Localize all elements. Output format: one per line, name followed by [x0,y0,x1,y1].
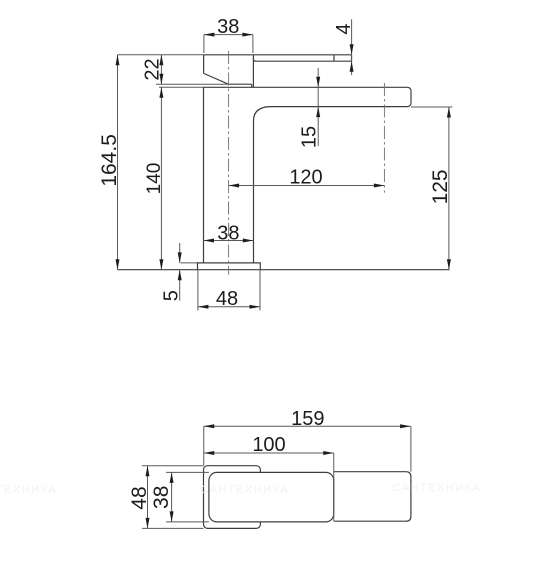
mounting surface baseline [118,269,450,271]
extension line from flange top, left (refs 5 dim) [181,262,198,264]
dimension 48 (flange width) [198,270,260,311]
svg-text:125: 125 [429,169,452,204]
handle right edge [252,55,254,88]
dimension 38 (handle width, top) [204,16,253,53]
svg-text:48: 48 [128,486,151,509]
lever tip end [351,55,353,61]
dimension 38 (plan bar width) [150,472,209,522]
svg-text:164.5: 164.5 [98,134,121,187]
svg-text:4: 4 [333,23,355,34]
svg-text:22: 22 [141,58,163,80]
svg-text:5: 5 [161,290,183,301]
dimension 159 (overall length, plan) [204,408,411,430]
body right edge [253,121,255,263]
body top and spout top edge [204,87,412,91]
spout right end edge [410,91,412,102]
extension line from body top, left (refs 140 dim) [159,86,204,88]
spout bottom edge with end corner and body fillet [254,103,412,121]
dimension 22 (handle height) [141,55,163,84]
svg-text:100: 100 [252,434,285,456]
svg-text:38: 38 [150,486,173,509]
dimension 38 (body width, bottom) [204,223,254,245]
dimension 120 (spout reach) [229,167,385,189]
dimension 48 (plan base width) [128,466,204,529]
handle bottom step [251,84,253,87]
handle top / lever top edge [204,54,352,56]
body vertical centerline [228,51,230,275]
base flange outline [198,263,261,270]
svg-text:САНТЕХНИКА: САНТЕХНИКА [201,484,290,496]
lever underside with corner [253,59,351,62]
svg-text:120: 120 [289,167,322,189]
dimension 125 (spout height above counter) [411,107,452,270]
dimension 15 (spout section height) [298,68,320,148]
wire: extension line from lever top, left (refs 164.5 and 22 dims) [118,54,204,56]
aerator vertical centerline [383,83,385,193]
svg-text:15: 15 [298,126,320,148]
handle left edge [203,55,205,74]
lever tip edge line [333,55,335,61]
extension line right end of spout bar (159 dim) [410,426,412,471]
lever bar rounded rectangle (38 wide, 100 long) [209,472,334,522]
svg-text:38: 38 [217,16,239,38]
base plate rounded rectangle (48 wide) [204,466,261,529]
handle bottom diagonal cut [204,74,228,85]
dimension 164.5 (total height) [98,55,121,270]
handle bottom edge [228,83,251,85]
body left edge [203,87,205,263]
extension line from handle bottom, left (refs 22 dim) [156,83,228,85]
extension line left top corner of base (159/100 dims) [203,426,205,465]
svg-text:САНТЕХНИКА: САНТЕХНИКА [393,482,482,494]
svg-text:38: 38 [217,223,239,245]
dimension 5 (flange thickness) [161,243,183,301]
svg-text:159: 159 [291,408,324,430]
svg-text:САНТЕХНИКА: САНТЕХНИКА [0,484,57,496]
extension line lever bar right edge (100 dim) [333,453,335,521]
dimension 140 (body height) [144,87,165,269]
dimension 4 (lever tip thickness) [333,19,355,75]
svg-text:48: 48 [216,288,238,310]
svg-text:140: 140 [144,163,165,195]
spout bar rounded rectangle (to 159 end, left edge hidden) [334,472,411,522]
dimension 100 (lever length, plan) [204,434,334,456]
